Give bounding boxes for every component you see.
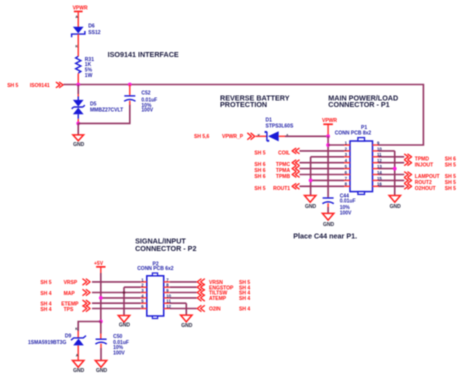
junction pin13/GND rail bbox=[393, 167, 397, 171]
wire pin7 to GND rail bbox=[311, 179, 344, 181]
wire pin11 TPMD bbox=[379, 156, 405, 158]
svg-text:TPS: TPS bbox=[64, 307, 74, 313]
ground (ISO9141 section) bbox=[73, 135, 85, 148]
arrow ROUT2 bbox=[405, 178, 412, 183]
wire VPWR node down to pin1 and C44 bbox=[327, 136, 329, 197]
junction D5/C52/GND bbox=[76, 122, 80, 126]
off-page ref SH 5,6 VPWR_P bbox=[194, 134, 244, 140]
wire TPMA to pin5 bbox=[300, 168, 345, 170]
pin label K (D6 cathode) bbox=[75, 44, 78, 48]
ground (right of P1) bbox=[389, 196, 401, 210]
svg-text:SH 5,6: SH 5,6 bbox=[194, 134, 210, 140]
net labels right of P2 bbox=[209, 280, 234, 313]
wire TPMB to pin6 bbox=[300, 174, 345, 176]
svg-text:SH 6: SH 6 bbox=[254, 174, 265, 180]
junction R31/bus bbox=[76, 83, 80, 87]
D5 labels bbox=[90, 102, 123, 114]
arrow O2HOUT bbox=[405, 184, 412, 189]
svg-text:0.01uF: 0.01uF bbox=[340, 199, 356, 205]
C44 labels bbox=[340, 193, 356, 216]
caption ISO9141 INTERFACE bbox=[108, 50, 179, 59]
svg-text:MMBZ27CVLT: MMBZ27CVLT bbox=[90, 108, 123, 114]
svg-text:STPS3L60S: STPS3L60S bbox=[266, 124, 294, 130]
svg-text:GND: GND bbox=[119, 322, 131, 328]
svg-text:MAP: MAP bbox=[64, 291, 76, 297]
note Place C44 near P1. bbox=[293, 231, 357, 240]
P2 labels bbox=[137, 262, 174, 273]
svg-text:SH 5: SH 5 bbox=[7, 83, 18, 89]
wire MAP to pin3 bbox=[92, 292, 141, 294]
D1 labels bbox=[266, 118, 294, 130]
svg-text:GND: GND bbox=[73, 142, 85, 148]
ground (D9) bbox=[73, 361, 85, 375]
power symbol VPWR (at P1) bbox=[322, 118, 337, 136]
svg-text:C50: C50 bbox=[113, 334, 122, 340]
svg-text:A: A bbox=[76, 353, 79, 357]
svg-text:K: K bbox=[75, 327, 78, 331]
arrow TPMC bbox=[292, 160, 299, 165]
D6 labels bbox=[88, 24, 100, 36]
wire TPS to pin6 bbox=[92, 308, 141, 310]
svg-text:O2HOUT: O2HOUT bbox=[415, 186, 436, 192]
svg-text:SH 4: SH 4 bbox=[40, 307, 51, 313]
wire +5V junction to C50 bbox=[100, 322, 102, 339]
svg-text:SH 5: SH 5 bbox=[445, 186, 456, 192]
junction C52/bus bbox=[128, 83, 132, 87]
capacitor C50 bbox=[95, 339, 106, 360]
svg-text:INJOUT: INJOUT bbox=[415, 162, 433, 168]
C52 labels bbox=[141, 90, 157, 113]
svg-text:D6: D6 bbox=[88, 24, 95, 30]
net labels left of P1 bbox=[273, 150, 290, 191]
svg-text:ROUT1: ROUT1 bbox=[273, 186, 290, 192]
svg-text:SH 4: SH 4 bbox=[40, 291, 51, 297]
svg-text:CONNECTOR - P1: CONNECTOR - P1 bbox=[328, 100, 389, 109]
wire +5V to pin4 bbox=[101, 297, 141, 299]
svg-text:SH 5: SH 5 bbox=[254, 150, 265, 156]
wire D5 junction to GND bbox=[77, 123, 79, 134]
P1 pin numbers 1-8 bbox=[345, 140, 348, 186]
wire pin12 O2IN bbox=[170, 308, 197, 310]
svg-text:VPWR_P: VPWR_P bbox=[222, 134, 244, 140]
net labels left of P2 bbox=[61, 280, 79, 313]
P1 pin stubs right bbox=[373, 145, 379, 186]
caption REVERSE BATTERY PROTECTION bbox=[220, 93, 290, 108]
arrow ROUT1 bbox=[292, 184, 299, 189]
GND rail left of P1 bbox=[310, 157, 312, 196]
svg-text:GND: GND bbox=[390, 204, 402, 210]
connector P1 body bbox=[350, 138, 373, 195]
pin label A (D9 anode) bbox=[76, 353, 79, 357]
arrow INJOUT bbox=[405, 160, 412, 165]
power symbol +5V bbox=[94, 261, 106, 273]
svg-text:SH 5: SH 5 bbox=[254, 186, 265, 192]
diode D9 (zener) bbox=[71, 336, 86, 361]
arrow VRSP bbox=[83, 279, 90, 285]
off-page ref SH 5 ISO9141 bbox=[7, 83, 50, 89]
svg-text:CONNECTOR - P2: CONNECTOR - P2 bbox=[135, 244, 196, 253]
wire pin16 O2HOUT bbox=[379, 185, 405, 187]
junction VPWR node bbox=[326, 134, 330, 138]
diode D1 (STPS3L60S) bbox=[265, 131, 285, 141]
svg-text:SS12: SS12 bbox=[88, 30, 100, 36]
wire pin11 to GND bbox=[170, 302, 187, 304]
svg-text:A: A bbox=[75, 15, 78, 19]
sheet refs left of P2 bbox=[40, 280, 51, 313]
svg-text:O2IN: O2IN bbox=[209, 307, 221, 313]
svg-text:PROTECTION: PROTECTION bbox=[220, 100, 267, 109]
arrow TPMD bbox=[405, 154, 412, 159]
wire pin7 VRSN bbox=[170, 281, 197, 283]
net labels right of P1 bbox=[415, 156, 440, 192]
svg-text:GND: GND bbox=[96, 368, 108, 374]
C50 labels bbox=[113, 334, 129, 357]
ground (C44) bbox=[322, 213, 334, 227]
wire pin14 LAMPOUT bbox=[379, 174, 405, 176]
pin label A (D1 anode) bbox=[286, 134, 289, 138]
arrow ETEMP bbox=[83, 300, 90, 306]
pin label K (D1 cathode) bbox=[258, 133, 261, 137]
junction +5V rail / D9 branch bbox=[99, 320, 103, 324]
wire pin12 INJOUT bbox=[379, 162, 405, 164]
sheet refs right of P2 bbox=[239, 280, 250, 313]
arrow LAMPOUT bbox=[405, 172, 412, 177]
resistor R31 bbox=[76, 56, 81, 84]
svg-text:CONN PCB 8x2: CONN PCB 8x2 bbox=[335, 131, 372, 137]
pin label A (D6 anode) bbox=[75, 15, 78, 19]
wire TPMC to pin4 bbox=[300, 162, 345, 164]
wire pin2 to GND rail bbox=[124, 286, 141, 288]
wire pin15 ROUT2 bbox=[379, 179, 405, 181]
junction at P1 pin1 bbox=[326, 143, 330, 147]
arrow TPMA bbox=[292, 166, 299, 171]
P1 labels bbox=[335, 125, 372, 137]
wire +5V rail down bbox=[100, 273, 102, 322]
svg-text:SH 5: SH 5 bbox=[445, 162, 456, 168]
svg-text:VRSP: VRSP bbox=[64, 280, 78, 286]
ground (left of P1) bbox=[305, 196, 317, 210]
caption SIGNAL/INPUT CONNECTOR - P2 bbox=[135, 237, 196, 253]
svg-text:SH 4: SH 4 bbox=[239, 307, 250, 313]
svg-text:SH 4: SH 4 bbox=[239, 296, 250, 302]
arrow COIL bbox=[292, 148, 299, 153]
capacitor C52 bbox=[124, 85, 135, 106]
sheet refs left of P1 bbox=[254, 150, 265, 191]
svg-text:ISO9141 INTERFACE: ISO9141 INTERFACE bbox=[108, 50, 179, 59]
svg-text:TPMB: TPMB bbox=[276, 174, 291, 180]
svg-text:GND: GND bbox=[323, 222, 335, 228]
GND drop right P2 bbox=[185, 303, 187, 315]
power symbol VPWR (top) bbox=[73, 6, 88, 27]
sheet refs right of P1 bbox=[445, 156, 456, 192]
svg-text:GND: GND bbox=[181, 323, 193, 329]
wire VRSP to pin1 bbox=[92, 281, 141, 283]
svg-text:ATEMP: ATEMP bbox=[209, 296, 227, 302]
P2 pin stubs right bbox=[164, 282, 170, 309]
svg-text:GND: GND bbox=[73, 368, 85, 374]
wire bus to D5 bbox=[77, 85, 79, 97]
arrow O2IN bbox=[197, 306, 204, 312]
arrow ENGSTOP bbox=[197, 284, 204, 290]
wire ISO9141 bus (to P1 pin 9) bbox=[64, 85, 424, 146]
caption MAIN POWER/LOAD CONNECTOR - P1 bbox=[328, 93, 398, 108]
svg-text:SH 5: SH 5 bbox=[40, 280, 51, 286]
wire to P1 pin1 bbox=[328, 144, 344, 146]
arrow VRSN bbox=[197, 279, 204, 285]
P2 pin numbers 1-6 bbox=[141, 277, 144, 309]
R31 labels bbox=[85, 57, 94, 79]
wire pin13 to GND rail bbox=[379, 168, 395, 170]
svg-text:D9: D9 bbox=[65, 333, 72, 339]
P1 pin numbers 9-16 bbox=[377, 140, 382, 186]
svg-text:C52: C52 bbox=[141, 90, 150, 96]
arrow TPS bbox=[83, 306, 90, 312]
junction artifact on GND rail bbox=[123, 291, 126, 294]
svg-text:COIL: COIL bbox=[278, 150, 290, 156]
P2 pin numbers 7-12 bbox=[166, 277, 171, 309]
svg-text:100V: 100V bbox=[141, 108, 153, 114]
diode D5 (dual zener) bbox=[72, 97, 85, 124]
P2 pin stubs left bbox=[141, 282, 147, 309]
svg-text:GND: GND bbox=[305, 204, 317, 210]
svg-text:K: K bbox=[75, 44, 78, 48]
svg-text:100V: 100V bbox=[340, 211, 352, 217]
wire ROUT1 to pin8 bbox=[300, 185, 345, 187]
svg-text:D5: D5 bbox=[90, 102, 97, 108]
junction +5V/pin4 bbox=[99, 296, 103, 300]
arrow into ISO9141 bus bbox=[56, 82, 63, 87]
GND rail left P2 bbox=[123, 287, 125, 315]
pin label K (D9 cathode) bbox=[75, 327, 78, 331]
wire pin9 TILTSW bbox=[170, 292, 197, 294]
wire D5 to C52 bottom bbox=[78, 104, 130, 123]
svg-text:Place C44 near P1.: Place C44 near P1. bbox=[293, 231, 357, 240]
ground (left under P2) bbox=[118, 316, 130, 329]
GND rail right of P1 bbox=[394, 151, 396, 196]
capacitor C44 bbox=[322, 198, 333, 214]
svg-text:1SMA5919BT3G: 1SMA5919BT3G bbox=[28, 340, 66, 346]
svg-text:100V: 100V bbox=[113, 351, 125, 357]
svg-text:1W: 1W bbox=[85, 73, 93, 79]
arrow TPMB bbox=[292, 172, 299, 177]
ground (C50) bbox=[95, 361, 107, 375]
svg-text:ISO9141: ISO9141 bbox=[30, 83, 50, 89]
wire D1 anode to VPWR node bbox=[285, 135, 328, 137]
wire pin10 to GND rail bbox=[379, 150, 395, 152]
D9 labels bbox=[28, 333, 72, 345]
wire pin8 ENGSTOP bbox=[170, 286, 197, 288]
svg-text:VPWR: VPWR bbox=[322, 118, 337, 124]
arrow TILTSW bbox=[197, 290, 204, 296]
P1 pin stubs left bbox=[344, 145, 350, 186]
arrow into VPWR_P bbox=[248, 133, 255, 139]
wire VPWR_P to D1 bbox=[256, 135, 267, 137]
wire COIL to pin2 bbox=[300, 150, 345, 152]
wire pin10 ATEMP bbox=[170, 297, 197, 299]
ground (right under P2) bbox=[181, 315, 193, 329]
arrow ATEMP bbox=[197, 295, 204, 301]
junction pin7/GND rail bbox=[309, 179, 313, 183]
svg-text:CONN PCB 6x2: CONN PCB 6x2 bbox=[137, 266, 174, 272]
wire ETEMP to pin5 bbox=[92, 302, 141, 304]
connector P2 body bbox=[147, 273, 164, 319]
diode D6 bbox=[72, 27, 85, 57]
arrow MAP bbox=[83, 290, 90, 296]
wire pin3 to GND rail bbox=[311, 156, 344, 158]
wire to D9 bbox=[78, 322, 101, 338]
